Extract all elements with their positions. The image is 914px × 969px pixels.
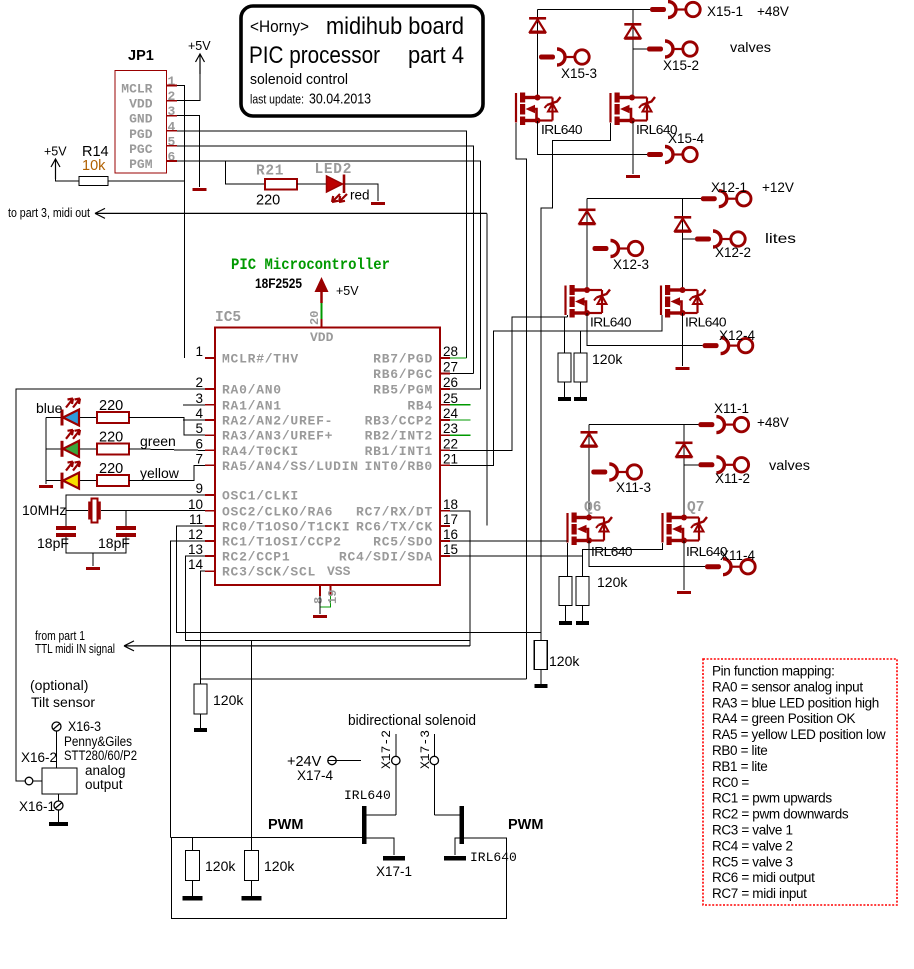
svg-text:last update:: last update:	[250, 93, 304, 107]
resistor 120k (X12 gate2)	[574, 353, 587, 382]
wire pin15 to Q7 gate	[450, 555, 583, 557]
svg-text:VDD: VDD	[310, 330, 334, 345]
wire pin11 RC0 bus	[177, 526, 541, 633]
svg-text:17: 17	[443, 512, 458, 527]
svg-text:X11-1: X11-1	[714, 401, 749, 416]
svg-text:+5V: +5V	[188, 39, 211, 53]
wire X15 gate2 to bus column	[541, 123, 611, 641]
IC5 pin 25 RB4	[440, 404, 450, 406]
svg-text:X16-1: X16-1	[19, 799, 55, 814]
ground under left 120k	[183, 896, 203, 901]
IC5 pin 16 RC5/SDO	[440, 540, 450, 542]
IC5 pin 8 VSS	[319, 585, 321, 596]
svg-text:120k: 120k	[205, 858, 236, 874]
resistor 220 (blue)	[97, 412, 129, 423]
LED green	[61, 441, 64, 457]
wire yellow LED to pin7 RA5	[129, 465, 205, 480]
IC5 pin 19 VSS	[330, 585, 332, 596]
svg-text:PGC: PGC	[129, 142, 153, 157]
svg-text:7: 7	[195, 451, 203, 466]
ground under mid 120k	[241, 896, 261, 901]
svg-text:IRL640: IRL640	[590, 316, 632, 330]
svg-text:X15-3: X15-3	[561, 66, 597, 81]
wire pin12 RC1 pwm upwards	[170, 541, 205, 837]
svg-text:5: 5	[195, 421, 203, 436]
svg-text:<Horny>: <Horny>	[250, 17, 309, 36]
diode D2 (X15 right)	[632, 10, 634, 98]
wire pin26 to PGM column	[450, 388, 480, 390]
svg-text:X11-4: X11-4	[720, 548, 756, 563]
transistor T4 IRL640 (X12 right)	[660, 286, 662, 316]
svg-text:120k: 120k	[592, 351, 623, 367]
svg-text:RC7/RX/DT: RC7/RX/DT	[356, 504, 433, 519]
ground X12	[676, 367, 690, 370]
grounds X11 120k	[565, 606, 567, 621]
svg-text:RC0/T1OSO/T1CKI: RC0/T1OSO/T1CKI	[222, 520, 350, 535]
transistor IRL640 (pwm right)	[460, 806, 465, 844]
connector JP1	[115, 71, 167, 174]
svg-text:yellow: yellow	[140, 465, 180, 481]
svg-text:MCLR: MCLR	[121, 82, 152, 97]
svg-text:RC6/TX/CK: RC6/TX/CK	[356, 520, 433, 535]
wire X16-1 to ground	[58, 810, 60, 822]
terminal X16-2	[25, 777, 33, 785]
wire LED row green	[46, 448, 61, 450]
svg-text:valves: valves	[769, 457, 810, 473]
svg-text:X12-4: X12-4	[719, 328, 756, 343]
svg-text:INT0/RB0: INT0/RB0	[365, 459, 433, 474]
IC5 pin 2 RA0/AN0	[205, 388, 215, 390]
connector X12-3	[593, 246, 609, 251]
ground for LEDs	[39, 485, 53, 488]
diode D1 (X15 left)	[537, 10, 539, 98]
svg-text:9: 9	[195, 481, 203, 496]
connector X12-1	[701, 196, 717, 201]
title box	[241, 6, 483, 116]
svg-text:X15-4: X15-4	[668, 131, 705, 146]
ground X15	[626, 175, 640, 178]
wire JP1 pin2 to +5V	[177, 74, 200, 101]
svg-text:RA0 = sensor analog input: RA0 = sensor analog input	[712, 679, 863, 694]
ground for JP1 pin3	[193, 188, 207, 191]
svg-text:GND: GND	[129, 112, 153, 127]
wire pin16 to Q6 gate	[450, 540, 568, 542]
svg-text:2: 2	[195, 375, 203, 390]
resistor 120k (bus pulldown)	[534, 641, 547, 670]
wire RA0 to tilt sensor	[16, 389, 205, 781]
svg-text:RC0 =: RC0 =	[712, 775, 749, 790]
wire 120k to ground	[200, 714, 202, 728]
svg-text:RA3 = blue LED position high: RA3 = blue LED position high	[712, 695, 879, 710]
IC5 pin 10 OSC2/CLKO/RA6	[205, 510, 215, 512]
svg-text:Pin function mapping:: Pin function mapping:	[712, 664, 834, 679]
wire pin21 to X12 gate2	[450, 331, 581, 465]
ground X11	[677, 591, 691, 594]
svg-text:JP1: JP1	[128, 48, 154, 64]
wire VSS to ground	[319, 596, 321, 614]
svg-text:19: 19	[326, 590, 340, 604]
svg-text:X15-1: X15-1	[707, 4, 743, 19]
wire pin13 branch to 120k	[250, 640, 252, 850]
ground for LED2	[371, 202, 385, 205]
ground under 120k	[194, 728, 207, 732]
svg-text:OSC2/CLKO/RA6: OSC2/CLKO/RA6	[222, 504, 333, 519]
svg-text:10k: 10k	[82, 158, 106, 174]
svg-text:220: 220	[99, 398, 123, 414]
wire right drain to X17-3	[434, 814, 459, 816]
svg-text:VSS: VSS	[327, 564, 351, 579]
wire X11-2 tap	[684, 464, 698, 466]
wire X11 top rail	[589, 424, 698, 426]
svg-text:RA3/AN3/UREF+: RA3/AN3/UREF+	[222, 429, 333, 444]
svg-text:PGM: PGM	[129, 157, 153, 172]
wire PWM left gate line	[170, 836, 362, 838]
connector X15-2	[647, 47, 663, 52]
wire sensor to X16-1	[58, 794, 60, 801]
wire X12 top rail	[587, 198, 701, 200]
wire +5V to R14	[56, 179, 80, 181]
resistor 120k (Q7 gate)	[576, 577, 589, 606]
svg-text:18F2525: 18F2525	[255, 276, 302, 291]
svg-text:LED2: LED2	[315, 162, 353, 178]
svg-text:+48V: +48V	[757, 4, 789, 19]
connector X11-2	[698, 462, 714, 467]
svg-text:14: 14	[188, 557, 204, 572]
svg-text:5: 5	[168, 134, 176, 149]
svg-text:6: 6	[195, 436, 203, 451]
IC5 pin 11 RC0/T1OSO/T1CKI	[205, 525, 215, 527]
wire X12 source rail	[587, 313, 703, 346]
wire R14 to MCLR net	[108, 180, 185, 182]
IC5 pin 26 RB5/PGM	[440, 388, 450, 390]
wire JP1 pin4 PGD	[177, 131, 467, 358]
wire TTL midi IN with arrow	[124, 641, 470, 651]
svg-text:220: 220	[99, 429, 123, 445]
crystal 10MHz	[88, 502, 91, 520]
IC5 pin 7 RA5/AN4/SS/LUDIN	[205, 464, 215, 466]
wire TTL midi to pin18 RC7	[450, 511, 470, 646]
IC IC5 body	[215, 328, 440, 586]
svg-text:IRL640: IRL640	[344, 788, 391, 803]
wire X12 gate2 to 120k	[581, 315, 663, 353]
svg-text:RB6/PGC: RB6/PGC	[373, 367, 433, 382]
wire Q6 gate down to 120k	[567, 543, 569, 577]
wire green LED to pin6 RA4	[129, 449, 205, 451]
svg-text:solenoid control: solenoid control	[250, 71, 348, 88]
wire X15 gate1 to valve line	[516, 123, 526, 679]
svg-text:RB5/PGM: RB5/PGM	[373, 383, 433, 398]
IC5 pin 28 RB7/PGD	[440, 357, 450, 359]
svg-text:10: 10	[188, 497, 203, 512]
wire LED2 cathode to ground	[345, 184, 378, 201]
wire X15 top rail	[538, 9, 650, 11]
IC5 pin 12 RC1/T1OSI/CCP2	[205, 540, 215, 542]
svg-text:RC3/SCK/SCL: RC3/SCK/SCL	[222, 565, 316, 580]
wire pin13 RC2 pwm downwards	[186, 556, 470, 640]
svg-text:RC3 = valve 1: RC3 = valve 1	[712, 823, 793, 838]
wire X12-2 tap	[683, 238, 695, 240]
svg-text:220: 220	[256, 193, 280, 209]
wire JP1 pin6 PGM	[177, 161, 480, 389]
svg-text:+5V: +5V	[336, 284, 359, 298]
resistor 220 (green)	[97, 443, 129, 454]
svg-text:IRL640: IRL640	[591, 545, 633, 559]
svg-text:RA2/AN2/UREF-: RA2/AN2/UREF-	[222, 414, 333, 429]
svg-text:2: 2	[168, 89, 176, 104]
wire green stub	[450, 404, 471, 406]
diode D4 (X12 right)	[682, 199, 684, 239]
IC5 pin 21 INT0/RB0	[440, 464, 450, 466]
resistor 120k (X12 gate1)	[558, 353, 571, 382]
resistor 120k (pin14 pulldown)	[194, 684, 207, 714]
wire Q7 gate to 120k	[583, 543, 663, 577]
diode D6 (X11 right)	[683, 425, 685, 465]
wire PWM right gate net	[171, 838, 506, 919]
svg-text:RA0/AN0: RA0/AN0	[222, 383, 282, 398]
svg-text:20: 20	[308, 311, 322, 325]
connector X11-1	[698, 422, 714, 427]
svg-text:X11-2: X11-2	[715, 471, 750, 486]
ground for tilt sensor	[49, 822, 68, 826]
wire green stub	[450, 419, 471, 421]
wire right source to ground	[455, 838, 460, 855]
svg-text:X15-2: X15-2	[663, 58, 699, 73]
svg-text:TTL midi IN signal: TTL midi IN signal	[35, 642, 115, 656]
wire X16-3 to sensor box	[56, 731, 58, 768]
svg-text:RA4 = green Position OK: RA4 = green Position OK	[712, 711, 856, 726]
svg-text:RC2 = pwm downwards: RC2 = pwm downwards	[712, 807, 849, 822]
svg-text:16: 16	[443, 527, 458, 542]
IC5 pin 20 VDD with +5V arrow	[320, 286, 323, 303]
svg-text:120k: 120k	[264, 858, 295, 874]
+5V symbol above JP1	[196, 54, 205, 74]
LED blue	[61, 410, 64, 426]
svg-text:RB2/INT2: RB2/INT2	[365, 429, 433, 444]
svg-text:18pF: 18pF	[37, 535, 69, 551]
IC5 pin 1 MCLR#/THV	[205, 357, 215, 359]
IC5 pin 15 RC4/SDI/SDA	[440, 555, 450, 557]
svg-text:21: 21	[443, 451, 458, 466]
wire JP1 pin1 MCLR net	[177, 86, 185, 359]
svg-text:Q6: Q6	[584, 500, 601, 516]
svg-text:10MHz: 10MHz	[22, 502, 66, 518]
svg-text:RC6 = midi output: RC6 = midi output	[712, 870, 815, 885]
svg-text:12: 12	[188, 527, 203, 542]
wire pin22 to X12 gate1	[450, 317, 567, 450]
wire R21 to LED2	[297, 183, 327, 185]
wire OSC1 to crystal	[66, 495, 205, 511]
svg-text:RC2/CCP1: RC2/CCP1	[222, 550, 290, 565]
svg-text:RB4: RB4	[407, 398, 433, 413]
svg-text:X12-2: X12-2	[715, 245, 751, 260]
wire JP1 pin5 PGC	[177, 146, 473, 374]
svg-text:23: 23	[443, 421, 458, 436]
ground under bus 120k	[534, 684, 547, 688]
svg-text:18pF: 18pF	[98, 535, 130, 551]
IC5 pin 3 RA1/AN1	[205, 404, 215, 406]
resistor R21 220	[265, 179, 297, 190]
ground X17-1	[383, 856, 405, 861]
transistor T3 IRL640 (X12 left)	[564, 286, 566, 316]
svg-text:3: 3	[195, 391, 203, 406]
svg-text:MCLR#/THV: MCLR#/THV	[222, 352, 299, 367]
wire green stub	[450, 434, 471, 436]
svg-text:X16-3: X16-3	[68, 719, 101, 734]
svg-text:+5V: +5V	[44, 145, 67, 159]
svg-text:RB7/PGD: RB7/PGD	[373, 352, 433, 367]
wire pin4 stub	[183, 419, 205, 421]
svg-text:120k: 120k	[597, 574, 628, 590]
IC5 pin 17 RC6/TX/CK	[440, 525, 450, 527]
IC5 pin 14 RC3/SCK/SCL	[205, 570, 215, 572]
svg-text:X12-3: X12-3	[613, 257, 649, 272]
svg-text:Q7: Q7	[687, 500, 704, 516]
svg-text:4: 4	[195, 406, 203, 421]
svg-text:RA5 = yellow LED position low: RA5 = yellow LED position low	[712, 727, 886, 742]
svg-text:to part 3, midi out: to part 3, midi out	[8, 206, 90, 220]
svg-text:1: 1	[168, 74, 176, 89]
wire LED row yellow	[46, 480, 61, 482]
wire X15-2 tap	[633, 48, 647, 50]
IC5 pin 27 RB6/PGC	[440, 373, 450, 375]
wire X11 source rail	[589, 541, 705, 567]
svg-text:3: 3	[168, 104, 176, 119]
wire left source to X17-1 ground	[366, 838, 394, 855]
wire crystal row	[66, 510, 88, 512]
svg-text:13: 13	[188, 542, 203, 557]
svg-text:PIC Microcontroller: PIC Microcontroller	[231, 256, 390, 274]
resistor R14 10k	[79, 177, 108, 186]
svg-text:RB0 = lite: RB0 = lite	[712, 743, 767, 758]
svg-text:VDD: VDD	[129, 97, 153, 112]
svg-text:IC5: IC5	[215, 310, 241, 326]
svg-text:4: 4	[168, 119, 176, 134]
terminal X16-1	[54, 801, 63, 810]
svg-text:X16-2: X16-2	[21, 750, 57, 765]
connector X12-4	[703, 343, 719, 348]
connector X15-1	[650, 7, 666, 12]
diode D3 (X12 left)	[586, 199, 588, 290]
svg-text:22: 22	[443, 436, 458, 451]
transistor T1 IRL640 (X15 left)	[515, 93, 517, 123]
svg-text:30.04.2013: 30.04.2013	[309, 91, 371, 108]
svg-text:green: green	[140, 433, 176, 449]
wire caps to ground	[66, 537, 126, 553]
IC5 pin 22 RB1/INT1	[440, 449, 450, 451]
ground right source	[444, 856, 466, 861]
capacitor 18pF left	[56, 526, 76, 530]
svg-text:+12V: +12V	[762, 180, 794, 195]
svg-text:+48V: +48V	[757, 415, 789, 430]
svg-text:X17-3: X17-3	[418, 730, 433, 769]
IC5 pin 4 RA2/AN2/UREF-	[205, 419, 215, 421]
svg-text:8: 8	[312, 597, 326, 604]
resistor 120k (pwm right pulldown)	[244, 850, 258, 880]
wire crystal right to cap	[125, 511, 127, 527]
IC5 pin 6 RA4/T0CKI	[205, 449, 215, 451]
svg-text:Tilt sensor: Tilt sensor	[31, 694, 95, 710]
svg-text:28: 28	[443, 344, 458, 359]
svg-text:11: 11	[189, 512, 203, 527]
svg-text:X17-4: X17-4	[297, 768, 334, 783]
capacitor 18pF right	[116, 526, 136, 530]
IC5 pin 23 RB2/INT2	[440, 434, 450, 436]
wire crystal left to cap	[65, 511, 67, 527]
svg-text:RA5/AN4/SS/LUDIN: RA5/AN4/SS/LUDIN	[222, 459, 359, 474]
terminal X17-2	[395, 734, 397, 815]
svg-text:IRL640: IRL640	[470, 850, 517, 865]
wire pin27 to PGC column	[450, 373, 473, 375]
wire green stub pin 28	[450, 357, 467, 359]
svg-text:RC1/T1OSI/CCP2: RC1/T1OSI/CCP2	[222, 535, 342, 550]
svg-text:120k: 120k	[213, 692, 244, 708]
svg-text:27: 27	[443, 360, 458, 375]
IC5 pin 9 OSC1/CLKI	[205, 494, 215, 496]
wire LED cathode bus	[45, 418, 47, 485]
svg-text:RC4/SDI/SDA: RC4/SDI/SDA	[339, 550, 433, 565]
svg-text:1: 1	[195, 344, 203, 359]
svg-text:6: 6	[168, 150, 176, 165]
svg-text:PWM: PWM	[268, 817, 303, 833]
wire JP1 pin3 to ground	[177, 116, 200, 187]
svg-text:120k: 120k	[549, 653, 580, 669]
svg-text:output: output	[85, 777, 123, 792]
svg-text:from part 1: from part 1	[35, 629, 85, 643]
svg-text:X12-1: X12-1	[711, 180, 747, 195]
terminal X17-3	[433, 734, 435, 815]
svg-text:26: 26	[443, 375, 458, 390]
LED yellow	[61, 473, 64, 489]
wire PGM to R21	[225, 161, 265, 184]
IC5 pin 24 RB3/CCP2	[440, 419, 450, 421]
svg-text:25: 25	[443, 391, 458, 406]
tilt sensor body	[42, 768, 77, 794]
transistor T2 IRL640 (X15 right)	[609, 93, 611, 123]
connector X15-3	[539, 55, 555, 60]
connector X11-3	[591, 470, 607, 475]
resistor 120k (pwm left pulldown)	[192, 837, 194, 850]
svg-text:24: 24	[443, 406, 459, 421]
ground for caps	[86, 567, 100, 570]
wire blue LED to pin5 RA3	[129, 418, 205, 436]
diode D5 (X11 left)	[588, 425, 590, 517]
grounds X12 120k	[564, 382, 566, 397]
wire left drain to X17-2	[366, 814, 396, 816]
pin function mapping box	[703, 659, 897, 905]
wire valve1 line to X15 gate1	[201, 678, 527, 680]
svg-text:RA4/T0CKI: RA4/T0CKI	[222, 444, 299, 459]
ground for VSS	[313, 615, 327, 618]
connector X11-4	[705, 564, 721, 569]
svg-text:R21: R21	[256, 164, 284, 180]
svg-text:midihub board: midihub board	[326, 13, 464, 40]
svg-text:RA1/AN1: RA1/AN1	[222, 398, 282, 413]
connector X15-4	[647, 152, 663, 157]
svg-text:lites: lites	[765, 230, 796, 246]
svg-text:15: 15	[443, 542, 458, 557]
svg-text:RC5/SDO: RC5/SDO	[373, 535, 433, 550]
+5V symbol at R14	[51, 159, 60, 179]
resistor 220 (yellow)	[97, 475, 129, 486]
svg-text:IRL640: IRL640	[541, 123, 583, 137]
svg-text:PWM: PWM	[508, 817, 543, 833]
connector X12-2	[695, 237, 711, 242]
wire pin3 stub	[183, 404, 205, 406]
svg-text:220: 220	[99, 461, 123, 477]
svg-text:X11-3: X11-3	[616, 480, 651, 495]
svg-text:part 4: part 4	[408, 42, 464, 69]
svg-text:valves: valves	[730, 39, 771, 55]
